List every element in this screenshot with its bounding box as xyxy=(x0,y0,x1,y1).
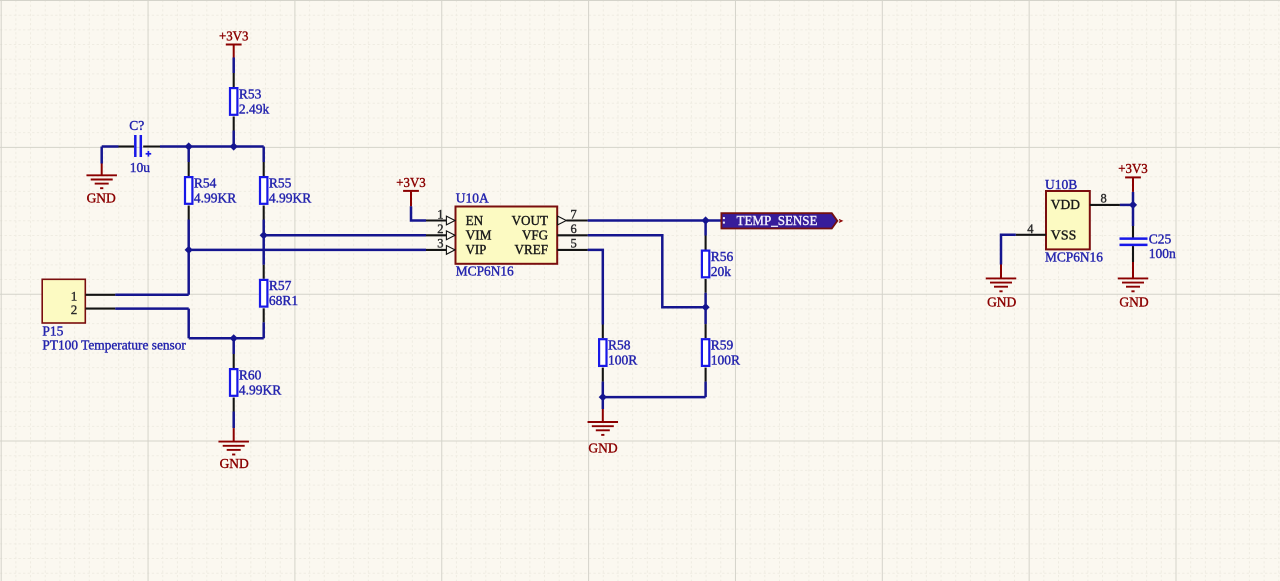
node xyxy=(702,303,710,311)
svg-text:1: 1 xyxy=(437,207,443,221)
svg-text:C?: C? xyxy=(129,118,144,133)
wire xyxy=(705,368,707,382)
ground GND (U10B) xyxy=(986,265,1017,310)
wire xyxy=(188,162,190,176)
wire xyxy=(588,235,706,307)
wire xyxy=(102,145,119,148)
svg-text:R56: R56 xyxy=(711,249,734,264)
wire xyxy=(1132,192,1135,205)
wire xyxy=(233,117,235,131)
wire xyxy=(263,265,265,279)
svg-text:GND: GND xyxy=(987,294,1016,309)
pin 2 VIM xyxy=(426,222,492,244)
resistor R57 xyxy=(260,278,298,308)
svg-text:2: 2 xyxy=(437,222,443,236)
svg-text:6: 6 xyxy=(571,222,577,236)
ground GND (C25) xyxy=(1118,262,1149,309)
capacitor C? xyxy=(129,118,151,175)
resistor R59 xyxy=(702,338,740,368)
wire xyxy=(704,382,707,398)
svg-text:VIP: VIP xyxy=(466,243,487,258)
wire xyxy=(264,234,426,237)
node xyxy=(1129,201,1137,209)
pin 8 VDD xyxy=(1090,191,1120,205)
svg-text:VREF: VREF xyxy=(515,243,549,258)
svg-text:20k: 20k xyxy=(711,264,732,279)
svg-text:4.99KR: 4.99KR xyxy=(269,190,311,205)
wire xyxy=(603,396,706,399)
wire xyxy=(705,236,707,250)
svg-text:R53: R53 xyxy=(239,86,262,101)
svg-text:TEMP_SENSE: TEMP_SENSE xyxy=(737,214,818,229)
svg-text:10u: 10u xyxy=(130,160,151,175)
power +3V3 (R53 supply) xyxy=(219,29,249,58)
svg-text:VFG: VFG xyxy=(522,229,548,244)
wire xyxy=(187,220,190,295)
pin 7 VOUT xyxy=(512,207,588,229)
svg-text:VSS: VSS xyxy=(1051,228,1077,243)
pin 3 VIP xyxy=(426,237,486,259)
power +3V3 (U10B) xyxy=(1118,161,1148,192)
svg-text:VDD: VDD xyxy=(1051,198,1080,213)
svg-text:4.99KR: 4.99KR xyxy=(194,190,236,205)
wire xyxy=(233,398,235,412)
wire xyxy=(602,368,604,382)
svg-text:GND: GND xyxy=(588,440,617,455)
connector P15 xyxy=(42,279,186,352)
svg-text:R58: R58 xyxy=(608,338,631,353)
svg-text:7: 7 xyxy=(571,207,577,221)
wire xyxy=(232,58,235,74)
svg-text:2: 2 xyxy=(71,302,78,317)
node xyxy=(230,142,238,150)
pin 5 VREF xyxy=(515,237,588,259)
svg-text:R60: R60 xyxy=(239,367,262,382)
svg-text:R55: R55 xyxy=(269,175,292,190)
wire xyxy=(232,338,235,354)
wire xyxy=(588,250,603,325)
wire xyxy=(704,293,707,324)
wire xyxy=(1132,205,1135,226)
svg-text:GND: GND xyxy=(220,456,249,471)
wire xyxy=(143,145,160,147)
svg-text:VOUT: VOUT xyxy=(512,214,549,229)
wire xyxy=(262,220,265,265)
wire xyxy=(262,147,265,163)
resistor R54 xyxy=(185,175,236,205)
svg-text:68R1: 68R1 xyxy=(269,293,298,308)
wire xyxy=(233,73,235,87)
svg-text:+3V3: +3V3 xyxy=(396,175,426,190)
wire xyxy=(602,382,605,398)
wire xyxy=(232,131,235,147)
svg-text:PT100 Temperature sensor: PT100 Temperature sensor xyxy=(42,338,186,353)
node xyxy=(702,216,710,224)
wire xyxy=(1120,204,1133,207)
wire xyxy=(263,162,265,176)
wire xyxy=(602,397,605,409)
wire xyxy=(705,324,707,338)
svg-text:100R: 100R xyxy=(608,353,637,368)
op-amp U10A xyxy=(456,190,558,278)
node xyxy=(599,393,607,401)
wire xyxy=(115,294,188,297)
svg-text:MCP6N16: MCP6N16 xyxy=(1045,249,1103,264)
capacitor C25 xyxy=(1120,232,1177,262)
wire xyxy=(704,221,707,236)
wire xyxy=(411,206,426,220)
svg-text:C25: C25 xyxy=(1149,232,1172,247)
resistor R55 xyxy=(260,175,311,205)
wire xyxy=(232,412,235,429)
svg-text:P15: P15 xyxy=(42,324,63,339)
svg-text:100R: 100R xyxy=(711,353,740,368)
op-amp U10B xyxy=(1045,177,1103,264)
wire xyxy=(588,219,722,222)
wire xyxy=(160,145,264,148)
svg-text:8: 8 xyxy=(1101,191,1107,205)
ground GND (R58) xyxy=(588,409,619,455)
node xyxy=(185,142,193,150)
svg-text:EN: EN xyxy=(466,214,484,229)
svg-text:MCP6N16: MCP6N16 xyxy=(456,264,514,279)
svg-text:2.49k: 2.49k xyxy=(239,101,270,116)
wire xyxy=(187,147,190,163)
wire xyxy=(602,325,604,339)
resistor R56 xyxy=(702,249,734,279)
wire xyxy=(189,337,264,340)
pin 1 xyxy=(86,294,116,296)
svg-text:R54: R54 xyxy=(194,175,217,190)
svg-text:+3V3: +3V3 xyxy=(1118,161,1148,176)
node xyxy=(230,334,238,342)
svg-text:GND: GND xyxy=(1119,294,1148,309)
svg-text:5: 5 xyxy=(571,237,577,251)
svg-text:+3V3: +3V3 xyxy=(219,29,249,44)
wire xyxy=(705,279,707,293)
pin 6 VFG xyxy=(522,222,588,244)
svg-text:4: 4 xyxy=(1027,222,1034,236)
node xyxy=(185,246,193,254)
resistor R58 xyxy=(599,338,637,368)
resistor R60 xyxy=(230,367,281,397)
ground GND (R60) xyxy=(218,428,249,471)
wire xyxy=(263,206,265,220)
svg-text:VIM: VIM xyxy=(466,229,492,244)
pin 4 VSS xyxy=(1016,222,1046,236)
wire xyxy=(189,249,426,252)
wire xyxy=(1132,226,1134,238)
svg-text:4.99KR: 4.99KR xyxy=(239,382,281,397)
svg-text:3: 3 xyxy=(437,237,443,251)
svg-text:U10B: U10B xyxy=(1045,177,1077,192)
wire xyxy=(1132,246,1134,262)
svg-text:GND: GND xyxy=(87,191,116,206)
wire xyxy=(233,354,235,368)
wire xyxy=(100,147,103,164)
svg-text:1: 1 xyxy=(71,288,78,303)
svg-text:R59: R59 xyxy=(711,338,734,353)
wire xyxy=(188,206,190,220)
svg-text:U10A: U10A xyxy=(456,190,489,205)
power +3V3 (EN) xyxy=(396,175,426,206)
ground GND (C?) xyxy=(86,164,117,206)
wire xyxy=(263,308,265,322)
wire xyxy=(1001,235,1016,265)
svg-text:100n: 100n xyxy=(1149,246,1176,261)
pin 1 EN xyxy=(426,207,483,229)
resistor R53 xyxy=(230,86,270,116)
wire xyxy=(119,145,135,147)
svg-text:R57: R57 xyxy=(269,278,292,293)
wire xyxy=(115,309,188,339)
wire xyxy=(262,322,265,338)
port TEMP_SENSE xyxy=(721,213,842,229)
node xyxy=(260,231,268,239)
pin 2 xyxy=(86,308,116,310)
